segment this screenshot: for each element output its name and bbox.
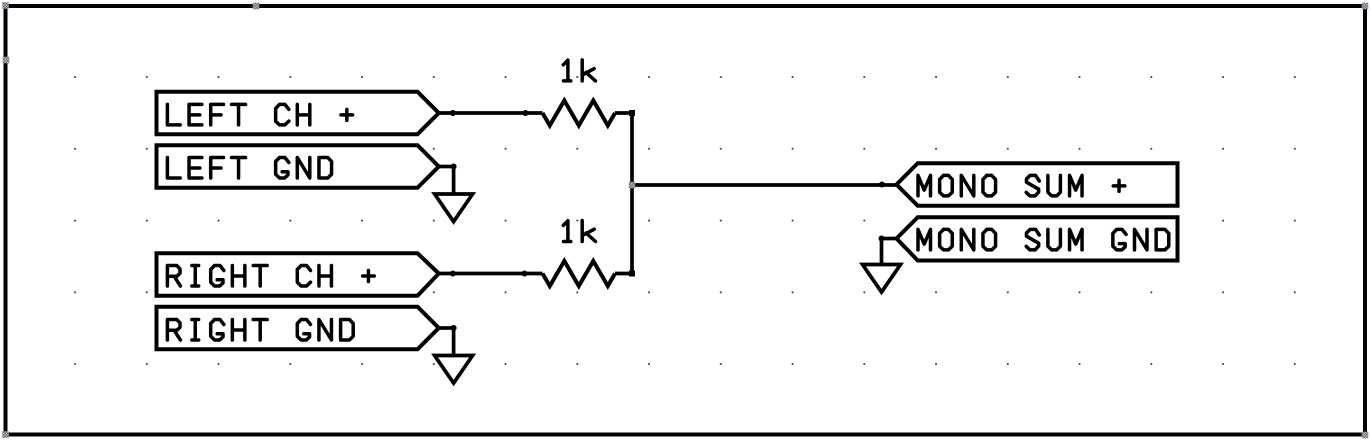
value label 1k (R1) (563, 60, 595, 81)
wire RIGHT GND to ground (439, 326, 454, 330)
junction LEFT GND bend (451, 164, 457, 170)
wire R2 to summing node corner (615, 272, 632, 276)
node summing output handle (629, 182, 636, 189)
corner junction R1 output (629, 110, 635, 116)
resistor R1 1k (543, 101, 616, 126)
junction at R2 input (522, 271, 528, 277)
wire RIGHT CH + to R2 (439, 272, 543, 276)
resistor R2 1k (543, 261, 616, 286)
ground (mono sum) (863, 239, 901, 293)
junction at R1 input (523, 110, 529, 116)
junction MONO SUM + wire (879, 182, 885, 188)
ground (left channel) (435, 167, 473, 222)
wire MONO SUM GND to ground (882, 237, 897, 241)
corner junction R2 output (629, 271, 635, 277)
junction RIGHT GND bend (451, 325, 457, 331)
port flag LEFT GND (157, 145, 439, 188)
wire LEFT GND to ground (439, 165, 454, 169)
junction RIGHT CH + wire (450, 271, 456, 277)
junction MONO SUM GND bend (879, 236, 885, 242)
junction LEFT CH + wire (450, 110, 456, 116)
wire R1 to summing node corner (615, 111, 632, 115)
wire summing node vertical (630, 113, 634, 274)
ground (right channel) (435, 328, 473, 383)
port flag MONO SUM GND (897, 217, 1178, 260)
value label 1k (R2) (563, 221, 595, 242)
wire summing node to MONO SUM + (632, 183, 897, 187)
port flag RIGHT GND (157, 307, 439, 350)
port flag RIGHT CH + (157, 253, 439, 296)
port flag LEFT CH + (157, 92, 439, 135)
wire LEFT CH + to R1 (439, 111, 543, 115)
port flag MONO SUM + (897, 163, 1178, 206)
